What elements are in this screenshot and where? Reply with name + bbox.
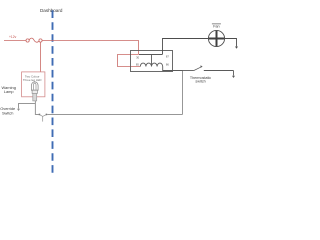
svg-text:87: 87 bbox=[166, 55, 169, 59]
relay plunger bbox=[151, 55, 153, 67]
svg-text:Three leg LED: Three leg LED bbox=[23, 78, 42, 82]
svg-text:Dashboard: Dashboard bbox=[40, 8, 63, 13]
ground thermostatic switch bbox=[233, 71, 235, 76]
override switch S1 bbox=[39, 114, 48, 122]
relay contact bar bbox=[139, 54, 163, 56]
wire coil 86 to junction bbox=[163, 67, 183, 71]
wire lamp down to override switch bbox=[35, 101, 38, 115]
dashed dashboard partition line bbox=[52, 10, 54, 172]
wire fan to ground bbox=[225, 39, 237, 47]
svg-text:Switch: Switch bbox=[2, 110, 13, 115]
label Fan bbox=[212, 23, 221, 25]
svg-text:Fan: Fan bbox=[213, 25, 219, 29]
relay coil bbox=[140, 63, 162, 66]
wire override switch to junction bbox=[47, 114, 182, 116]
svg-text:85: 85 bbox=[136, 62, 139, 66]
wire +12v bus to relay 30 bbox=[42, 41, 138, 55]
wire node 30 to coil terminal 85 bbox=[118, 55, 141, 67]
ground branch of lamp bbox=[19, 104, 36, 109]
thermostatic switch S2 bbox=[183, 70, 194, 72]
LED package box bbox=[22, 72, 45, 97]
svg-text:Lamp: Lamp bbox=[4, 89, 14, 94]
warning lamp bulb bbox=[31, 82, 38, 101]
wire junction up to coil return bbox=[182, 71, 184, 115]
svg-text:switch: switch bbox=[195, 80, 205, 84]
svg-text:86: 86 bbox=[166, 62, 169, 66]
wire bus drop to warning LED bbox=[40, 42, 42, 72]
svg-text:+12v: +12v bbox=[9, 35, 17, 39]
wire +12v feed bbox=[4, 40, 26, 42]
relay box bbox=[131, 51, 173, 72]
fuse F1 bbox=[26, 38, 42, 42]
svg-text:30: 30 bbox=[136, 56, 139, 60]
wire relay 87 to fan bbox=[163, 39, 209, 55]
fan motor M1 bbox=[208, 30, 224, 46]
